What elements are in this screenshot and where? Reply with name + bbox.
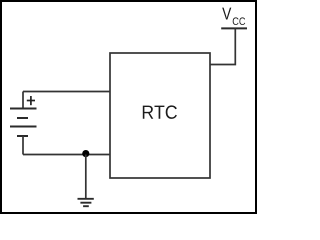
border frame (decorative): [1, 1, 256, 213]
ground: [78, 199, 94, 206]
RTC label: [143, 105, 177, 119]
wire battery- to RTC: [23, 154, 110, 156]
wire Vcc to RTC: [210, 28, 235, 64]
wire junction to ground: [85, 155, 87, 199]
battery BT1 negative terminal wire: [22, 136, 24, 155]
Vcc rail bar: [221, 27, 247, 29]
wire battery+ to RTC: [23, 91, 110, 93]
battery BT1 plus label: [27, 96, 35, 105]
Vcc label V: [222, 8, 231, 20]
junction node: [82, 150, 89, 157]
battery BT1 plates: [10, 109, 37, 137]
RTC box U1: [110, 53, 210, 178]
battery BT1 positive terminal wire: [22, 92, 24, 109]
Vcc label CC subscript: [233, 17, 246, 25]
